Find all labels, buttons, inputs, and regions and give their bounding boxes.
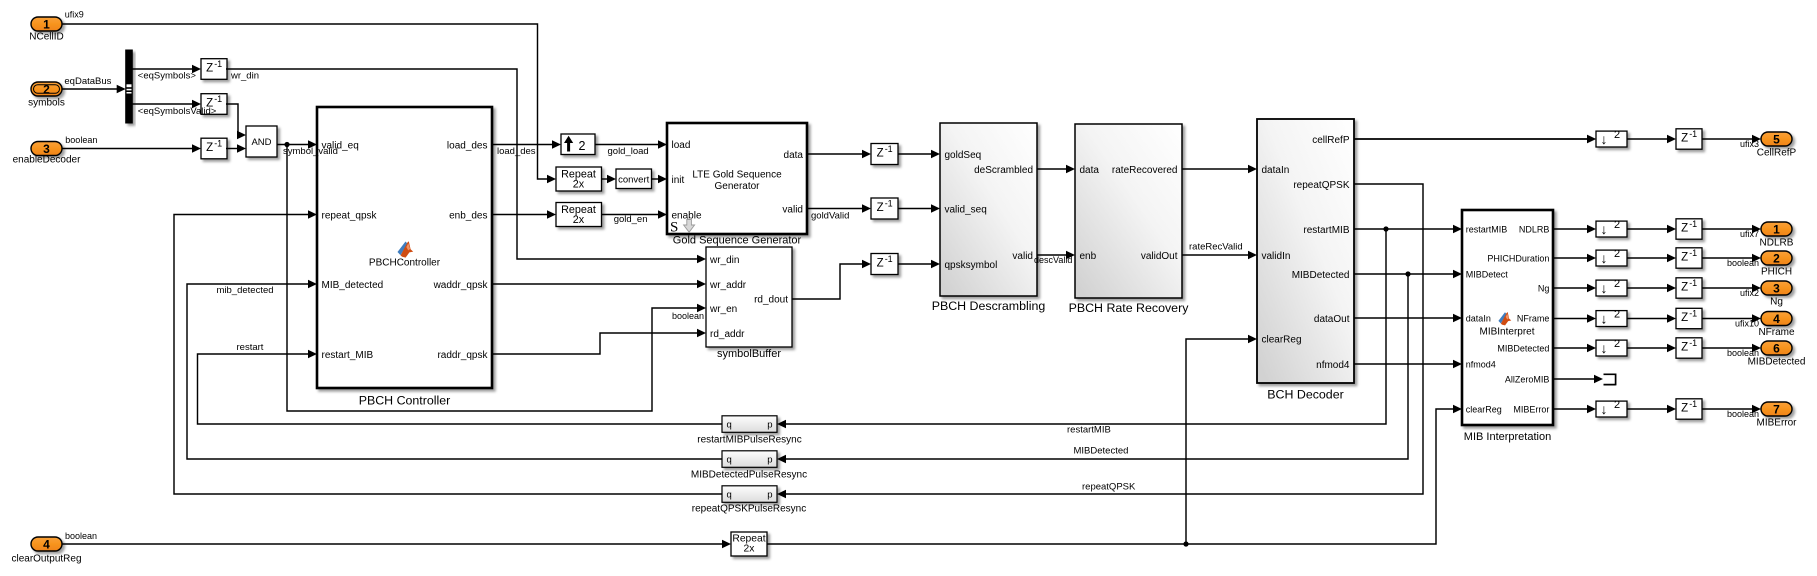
svg-text:symbolBuffer: symbolBuffer	[717, 348, 781, 360]
svg-text:validIn: validIn	[1262, 251, 1291, 262]
wire deScrambled	[1037, 165, 1075, 173]
svg-text:restartMIB: restartMIB	[1303, 225, 1349, 236]
wire rateRecovered	[1182, 165, 1257, 173]
wire D1 to goldSeq	[898, 150, 940, 158]
svg-text:PBCH Descrambling: PBCH Descrambling	[932, 299, 1046, 313]
svg-text:restart: restart	[237, 342, 264, 353]
block PBCH Controller	[317, 107, 492, 388]
output chain Ng (port 3)	[1553, 278, 1792, 308]
svg-text:2: 2	[1614, 338, 1620, 350]
svg-text:data: data	[1080, 165, 1100, 176]
svg-text:enb_des: enb_des	[449, 210, 487, 221]
svg-text:raddr_qpsk: raddr_qpsk	[437, 350, 488, 361]
svg-text:PHICHDuration: PHICHDuration	[1487, 253, 1549, 263]
block restartMIBPulseResync	[722, 416, 777, 433]
wire rd_dout to Z	[792, 260, 871, 299]
svg-text:eqDataBus: eqDataBus	[64, 76, 111, 87]
svg-text:enb: enb	[1080, 251, 1097, 262]
svg-text:MIBDetectedPulseResync: MIBDetectedPulseResync	[691, 470, 807, 481]
svg-text:descValid: descValid	[1034, 255, 1072, 265]
wire repeatQPSK feedback	[777, 184, 1423, 498]
block PBCH Rate Recovery	[1075, 124, 1182, 298]
svg-text:2: 2	[1614, 129, 1620, 141]
svg-text:load_des: load_des	[447, 140, 488, 151]
svg-text:-1: -1	[1689, 248, 1697, 258]
block repeatQPSKPulseResync	[722, 486, 777, 503]
svg-text:AND: AND	[251, 137, 271, 148]
svg-text:goldValid: goldValid	[811, 210, 849, 221]
input port 1 NCellID	[29, 10, 84, 43]
terminator AllZeroMIB	[1604, 374, 1616, 386]
svg-text:LTE Gold Sequence: LTE Gold Sequence	[692, 170, 782, 181]
svg-text:2x: 2x	[573, 179, 585, 191]
input port 4 clearOutputReg	[11, 531, 97, 565]
block LTE Gold Sequence Generator	[667, 123, 807, 236]
svg-text:symbols: symbols	[28, 97, 65, 108]
svg-text:2: 2	[1614, 278, 1620, 290]
svg-text:repeatQPSK: repeatQPSK	[1293, 180, 1349, 191]
svg-text:p: p	[767, 490, 772, 501]
upsample block (2)	[561, 134, 595, 155]
svg-text:MIBDetect: MIBDetect	[1466, 269, 1509, 279]
svg-text:↓: ↓	[1601, 401, 1608, 417]
svg-text:1: 1	[1773, 222, 1780, 236]
svg-text:clearReg: clearReg	[1466, 404, 1502, 414]
caption BCH Decoder	[1267, 388, 1343, 402]
input port 3 enableDecoder	[13, 135, 98, 166]
svg-text:6: 6	[1773, 341, 1780, 355]
wire D2 to valid_seq	[898, 204, 940, 212]
unit delay D2 (valid_seq)	[871, 198, 898, 219]
svg-text:↓: ↓	[1601, 340, 1608, 356]
wire repeat_qpsk feedback to PBCH Controller	[174, 210, 722, 494]
svg-text:-1: -1	[1689, 129, 1697, 139]
wire dataOut	[1354, 314, 1462, 322]
svg-text:5: 5	[1773, 132, 1780, 146]
svg-text:-1: -1	[214, 139, 222, 149]
svg-text:rd_addr: rd_addr	[710, 329, 745, 340]
svg-text:Z: Z	[1681, 133, 1688, 145]
svg-text:load_des: load_des	[497, 146, 536, 157]
svg-text:CellRefP: CellRefP	[1757, 148, 1797, 159]
svg-text:MIB_detected: MIB_detected	[322, 280, 384, 291]
svg-text:clearReg: clearReg	[1262, 334, 1302, 345]
wire symbols to bus selector	[62, 85, 126, 93]
svg-text:Z: Z	[1681, 403, 1688, 415]
svg-text:MIBInterpret: MIBInterpret	[1479, 326, 1534, 337]
caption PBCH Descrambling	[932, 299, 1046, 313]
svg-text:Z: Z	[1681, 282, 1688, 294]
svg-text:clearOutputReg: clearOutputReg	[11, 554, 81, 565]
svg-text:convert: convert	[618, 174, 650, 185]
caption PBCH Rate Recovery	[1069, 301, 1190, 315]
output chain MIBError (port 7)	[1553, 399, 1797, 429]
wire gold_en	[602, 210, 668, 225]
svg-text:MIBDetected: MIBDetected	[1748, 357, 1806, 368]
label symbol_valid	[283, 146, 338, 157]
wire NCellID to Repeat1	[62, 24, 556, 183]
svg-text:Z: Z	[877, 148, 884, 160]
convert block	[616, 169, 652, 189]
svg-text:2: 2	[1614, 309, 1620, 321]
wire enb_des	[492, 210, 556, 218]
svg-text:NFrame: NFrame	[1758, 327, 1795, 338]
block symbolBuffer	[706, 247, 792, 347]
svg-text:goldSeq: goldSeq	[945, 150, 982, 161]
svg-text:MIBDetected: MIBDetected	[1074, 445, 1129, 456]
caption MIBDetectedPulseResync	[691, 470, 807, 481]
wire convert to init	[652, 175, 668, 183]
svg-text:PBCHController: PBCHController	[369, 258, 441, 269]
block MIB Interpretation	[1462, 210, 1553, 425]
wire MIBDetected to MIB Interpretation and feedback	[777, 270, 1462, 463]
svg-text:NDLRB: NDLRB	[1519, 224, 1550, 234]
svg-text:restartMIB: restartMIB	[1067, 425, 1111, 436]
svg-text:dataOut: dataOut	[1314, 314, 1350, 325]
svg-text:↓: ↓	[1601, 131, 1608, 147]
output chain PHICH (port 2)	[1553, 248, 1792, 278]
output chain MIBDetected (port 6)	[1553, 338, 1805, 368]
svg-text:4: 4	[43, 537, 50, 551]
svg-text:Z: Z	[1681, 342, 1688, 354]
svg-text:boolean: boolean	[65, 531, 97, 541]
wire nfmod4	[1354, 360, 1462, 368]
svg-text:7: 7	[1773, 402, 1780, 416]
svg-text:boolean: boolean	[1727, 409, 1759, 419]
bus selector	[126, 50, 133, 123]
svg-text:-1: -1	[1689, 219, 1697, 229]
block PBCH Descrambling	[940, 123, 1037, 296]
block BCH Decoder	[1257, 119, 1354, 383]
svg-text:NFrame: NFrame	[1517, 313, 1550, 323]
wire gold data to Z	[807, 150, 871, 158]
svg-text:load: load	[672, 140, 691, 151]
svg-text:2x: 2x	[573, 214, 585, 226]
svg-text:1: 1	[43, 17, 50, 31]
svg-text:wr_din: wr_din	[709, 255, 739, 266]
svg-text:2: 2	[579, 139, 586, 153]
svg-text:p: p	[767, 420, 772, 431]
wire rateRecValid	[1182, 241, 1257, 259]
svg-text:3: 3	[1773, 281, 1780, 295]
svg-text:MIBDetected: MIBDetected	[1497, 343, 1549, 353]
wire restart feedback to PBCH Controller	[198, 342, 723, 424]
wire clearReg distribution	[767, 335, 1462, 547]
svg-text:Generator: Generator	[714, 181, 760, 192]
svg-text:init: init	[672, 175, 685, 186]
caption repeatQPSKPulseResync	[692, 504, 807, 515]
svg-text:q: q	[727, 420, 732, 431]
svg-text:<eqSymbols>: <eqSymbols>	[138, 71, 197, 82]
svg-text:mib_detected: mib_detected	[217, 285, 274, 296]
svg-text:PBCH Controller: PBCH Controller	[359, 394, 451, 408]
output chain NFrame (port 4)	[1553, 308, 1795, 338]
svg-text:rd_dout: rd_dout	[754, 295, 788, 306]
svg-text:nfmod4: nfmod4	[1316, 360, 1350, 371]
svg-text:restartMIBPulseResync: restartMIBPulseResync	[697, 435, 801, 446]
svg-text:ufix9: ufix9	[65, 10, 84, 20]
svg-text:wr_din: wr_din	[230, 71, 259, 82]
wire enableDecoder to unit delay	[62, 144, 201, 152]
svg-text:valid: valid	[1012, 251, 1033, 262]
unit delay Z2 (eqSymbolsValid)	[201, 94, 227, 115]
svg-text:Z: Z	[1681, 252, 1688, 264]
wire bus out eqSymbolsValid	[132, 100, 201, 108]
caption restartMIBPulseResync	[697, 435, 801, 446]
svg-text:qpsksymbol: qpsksymbol	[945, 260, 998, 271]
svg-text:4: 4	[1773, 312, 1780, 326]
svg-text:MIBError: MIBError	[1513, 404, 1549, 414]
svg-text:boolean: boolean	[672, 311, 704, 321]
wire mib_detected feedback to PBCH Controller	[187, 280, 722, 459]
svg-text:MIBDetected: MIBDetected	[1292, 270, 1350, 281]
block MIBDetectedPulseResync	[722, 451, 777, 468]
svg-text:-1: -1	[885, 254, 893, 264]
repeat block 2 (enable path)	[556, 203, 602, 227]
wire raddr_qpsk	[492, 329, 706, 354]
svg-text:repeat_qpsk: repeat_qpsk	[322, 210, 378, 221]
svg-text:wr_en: wr_en	[709, 304, 737, 315]
wire gold valid to Z	[807, 204, 871, 221]
svg-text:restartMIB: restartMIB	[1466, 224, 1508, 234]
repeat block 1 (init path)	[556, 167, 602, 191]
svg-text:gold_load: gold_load	[608, 146, 649, 157]
svg-text:enableDecoder: enableDecoder	[13, 155, 81, 166]
wire bus out eqSymbols	[132, 65, 201, 82]
svg-text:-1: -1	[1689, 338, 1697, 348]
svg-text:PBCH Rate Recovery: PBCH Rate Recovery	[1069, 301, 1190, 315]
svg-text:Z: Z	[877, 258, 884, 270]
svg-text:ufix10: ufix10	[1735, 319, 1759, 329]
svg-text:q: q	[727, 455, 732, 466]
svg-text:2x: 2x	[744, 543, 756, 554]
output chain NDLRB (port 1)	[1553, 219, 1794, 249]
svg-text:NDLRB: NDLRB	[1760, 238, 1794, 249]
unit delay Z1 (eqSymbols)	[201, 59, 227, 80]
svg-text:restart_MIB: restart_MIB	[322, 350, 374, 361]
wire clearOutputReg to Repeat	[62, 540, 731, 548]
svg-text:ufix2: ufix2	[1740, 288, 1759, 298]
svg-text:↓: ↓	[1601, 221, 1608, 237]
wire Z3 to AND	[226, 144, 246, 152]
unit delay Z3 (enableDecoder)	[201, 138, 227, 159]
svg-text:BCH Decoder: BCH Decoder	[1267, 388, 1343, 402]
svg-text:-1: -1	[214, 94, 222, 104]
svg-text:symbol_valid: symbol_valid	[283, 146, 338, 157]
svg-text:nfmod4: nfmod4	[1466, 359, 1496, 369]
svg-text:MIBError: MIBError	[1757, 418, 1798, 429]
output chain CellRefP (port 5)	[1354, 129, 1797, 159]
svg-text:valid: valid	[782, 204, 803, 215]
svg-text:Gold Sequence Generator: Gold Sequence Generator	[673, 234, 802, 246]
wire gold_load	[595, 140, 667, 157]
label boolean wr_en	[672, 311, 704, 321]
svg-text:wr_addr: wr_addr	[709, 280, 747, 291]
svg-text:ufix7: ufix7	[1740, 229, 1759, 239]
svg-text:data: data	[784, 150, 804, 161]
unit delay D1 (goldSeq)	[871, 144, 898, 165]
AND logic block	[246, 126, 277, 157]
svg-text:valid_seq: valid_seq	[945, 204, 987, 215]
svg-text:validOut: validOut	[1141, 251, 1178, 262]
svg-text:Ng: Ng	[1770, 297, 1783, 308]
svg-text:p: p	[767, 455, 772, 466]
wire waddr_qpsk	[492, 280, 706, 288]
svg-text:Z: Z	[206, 63, 213, 75]
wire load_des	[492, 140, 561, 157]
svg-text:q: q	[727, 490, 732, 501]
caption symbolBuffer	[717, 348, 781, 360]
svg-text:↓: ↓	[1601, 250, 1608, 266]
wire D3 to qpsksymbol	[898, 260, 940, 268]
wire descValid	[1034, 251, 1075, 265]
caption MIB Interpretation	[1464, 431, 1551, 443]
caption PBCH Controller	[359, 394, 451, 408]
wire repeat1 to convert	[602, 175, 617, 183]
svg-text:repeatQPSKPulseResync: repeatQPSKPulseResync	[692, 504, 807, 515]
svg-text:2: 2	[1773, 251, 1780, 265]
wire cellRefP long	[1354, 135, 1596, 143]
svg-text:Z: Z	[1681, 312, 1688, 324]
svg-text:-1: -1	[885, 199, 893, 209]
svg-text:-1: -1	[1689, 309, 1697, 319]
svg-text:boolean: boolean	[1727, 258, 1759, 268]
svg-text:rateRecovered: rateRecovered	[1112, 165, 1178, 176]
wire symbol_valid AND to PBCH Controller and wr_en	[277, 140, 706, 411]
svg-text:gold_en: gold_en	[614, 214, 648, 225]
svg-text:Z: Z	[206, 142, 213, 154]
svg-text:boolean: boolean	[65, 135, 97, 145]
svg-text:<eqSymbolsValid>: <eqSymbolsValid>	[138, 106, 217, 117]
svg-text:deScrambled: deScrambled	[974, 165, 1033, 176]
svg-text:NCellID: NCellID	[29, 32, 63, 43]
svg-text:PHICH: PHICH	[1761, 267, 1792, 278]
input port 2 symbols (bus)	[28, 76, 111, 108]
repeat block clearOutputReg	[731, 532, 767, 556]
svg-text:cellRefP: cellRefP	[1312, 135, 1350, 146]
svg-text:-1: -1	[1689, 278, 1697, 288]
wire AllZeroMIB to terminator	[1553, 375, 1603, 383]
wire Z2 to AND	[226, 104, 246, 139]
svg-text:MIB Interpretation: MIB Interpretation	[1464, 431, 1551, 443]
svg-text:Z: Z	[1681, 223, 1688, 235]
svg-text:S: S	[670, 220, 678, 236]
unit delay D3 (qpsksymbol)	[871, 254, 898, 275]
svg-text:-1: -1	[885, 144, 893, 154]
wire wr_din from Z1 to symbolBuffer	[226, 69, 706, 263]
svg-text:-1: -1	[1689, 399, 1697, 409]
svg-text:2: 2	[1614, 219, 1620, 231]
svg-text:Z: Z	[877, 202, 884, 214]
wire restartMIB to MIB Interpretation and feedback	[777, 225, 1462, 436]
svg-text:↓: ↓	[1601, 311, 1608, 327]
svg-text:2: 2	[1614, 399, 1620, 411]
svg-text:dataIn: dataIn	[1262, 165, 1290, 176]
svg-text:2: 2	[1614, 248, 1620, 260]
label eqSymbolsValid	[138, 106, 217, 117]
svg-text:dataIn: dataIn	[1466, 313, 1491, 323]
svg-text:AllZeroMIB: AllZeroMIB	[1505, 374, 1550, 384]
svg-text:repeatQPSK: repeatQPSK	[1082, 481, 1136, 492]
caption Gold Sequence Generator	[673, 234, 802, 246]
svg-text:waddr_qpsk: waddr_qpsk	[433, 280, 489, 291]
svg-text:↓: ↓	[1601, 280, 1608, 296]
svg-text:-1: -1	[214, 59, 222, 69]
svg-text:rateRecValid: rateRecValid	[1189, 241, 1243, 252]
svg-text:Ng: Ng	[1538, 283, 1550, 293]
